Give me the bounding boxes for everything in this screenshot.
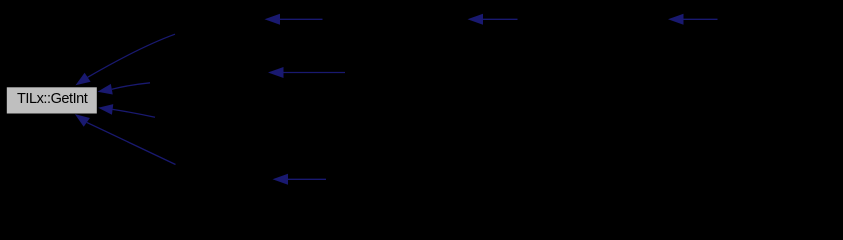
svg-text:TILx::GetInt: TILx::GetInt (17, 91, 88, 107)
